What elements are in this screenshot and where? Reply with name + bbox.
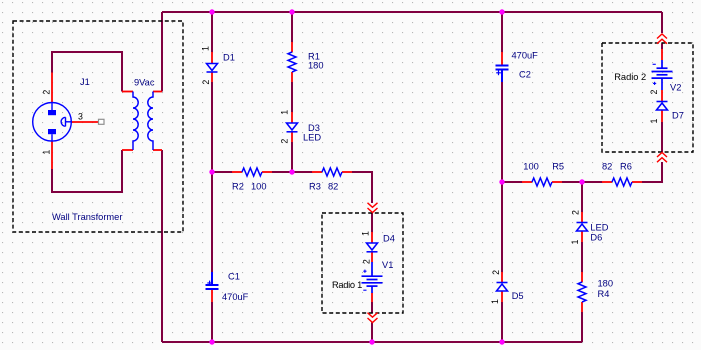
resistor R1 (vertical) — [288, 52, 296, 72]
wall transformer box — [13, 21, 183, 232]
resistor R4 (vertical) — [578, 282, 586, 302]
svg-text:LED: LED — [303, 133, 321, 143]
D7 pin 2 — [649, 89, 659, 94]
wire middle rail left — [212, 171, 232, 173]
svg-text:1: 1 — [360, 231, 370, 236]
R6 stubs — [602, 181, 612, 183]
capacitor C1 — [206, 272, 219, 289]
wire C1 branch — [211, 172, 213, 272]
R4 stubs — [581, 272, 583, 282]
wire radio1 inner bottom — [371, 302, 373, 313]
D6 pin 1 — [570, 240, 580, 245]
svg-text:R5: R5 — [552, 162, 564, 172]
D3 pin 2 — [280, 139, 290, 144]
svg-text:D5: D5 — [512, 291, 524, 301]
D1 pin 2 — [201, 80, 211, 85]
svg-text:2: 2 — [280, 139, 290, 144]
transformer T coils — [133, 92, 153, 151]
radio 1 box — [322, 213, 403, 313]
C1 bottom stub — [211, 290, 213, 302]
radio 2 box — [602, 43, 693, 152]
J1 pin1 stub — [51, 141, 53, 169]
connector J1 — [33, 103, 72, 142]
svg-text:82: 82 — [328, 182, 338, 192]
R2 stubs — [232, 171, 242, 173]
svg-text:D3: D3 — [308, 123, 320, 133]
diode D7 (up) — [657, 102, 668, 111]
node top D1 — [209, 9, 214, 14]
V2 top stub — [661, 49, 663, 60]
svg-text:2: 2 — [649, 89, 659, 94]
D6 stubs — [581, 212, 583, 222]
wire top rail — [162, 11, 662, 13]
svg-text:82: 82 — [602, 162, 612, 172]
transformer stubs — [122, 91, 133, 93]
LED D3 (down) — [287, 123, 298, 132]
V1 polarity marks — [363, 270, 366, 291]
D6 pin 2 — [570, 210, 580, 215]
svg-text:R2: R2 — [232, 182, 244, 192]
svg-text:180: 180 — [308, 61, 324, 71]
resistor R6 — [612, 178, 632, 186]
node mid D3 — [289, 169, 294, 174]
D3 stubs — [291, 112, 293, 123]
D4 pin 1 — [360, 231, 370, 236]
wire left vertical lower (transformer secondary bottom to bottom rail) — [161, 150, 163, 342]
C2 top stub — [501, 52, 503, 66]
wire R1/D3 branch — [291, 12, 293, 42]
svg-text:9Vac: 9Vac — [134, 78, 155, 88]
svg-text:Radio 1: Radio 1 — [332, 280, 362, 290]
J1 pin 1 — [41, 150, 51, 155]
capacitor C2 — [496, 66, 509, 83]
svg-text:LED: LED — [590, 223, 608, 233]
wire radio1 inner top — [371, 213, 373, 233]
svg-text:2: 2 — [362, 259, 372, 264]
svg-text:180: 180 — [598, 279, 614, 289]
wire middle-right rail — [502, 181, 522, 183]
battery V2 — [652, 60, 673, 90]
svg-text:470uF: 470uF — [222, 292, 249, 302]
J1 pin3 stub — [72, 121, 99, 123]
svg-text:3: 3 — [78, 111, 83, 121]
wire J1 pin1 to transformer primary bottom — [52, 150, 122, 192]
node bottom C1 — [209, 339, 214, 344]
svg-text:100: 100 — [251, 182, 267, 192]
svg-text:V2: V2 — [670, 83, 681, 93]
node bottom D5 — [499, 339, 504, 344]
node mid C2/D5 — [499, 179, 504, 184]
svg-text:J1: J1 — [80, 77, 90, 87]
D5 pin 2 — [491, 270, 501, 275]
svg-text:C2: C2 — [519, 70, 531, 80]
LED D6 (up) — [577, 223, 588, 232]
resistor R3 — [322, 168, 342, 176]
D7 bottom stub — [661, 110, 663, 122]
svg-text:D4: D4 — [383, 234, 395, 244]
V2-D7 stub — [661, 90, 663, 101]
svg-text:2: 2 — [570, 210, 580, 215]
svg-text:V1: V1 — [382, 260, 393, 270]
J1 pin3 terminal square — [99, 119, 105, 124]
V2 polarity marks — [653, 64, 657, 85]
node mid D6 — [579, 179, 584, 184]
svg-text:1: 1 — [201, 46, 211, 51]
wire C2 branch top — [501, 12, 503, 52]
svg-text:1: 1 — [41, 150, 51, 155]
diode D5 (up) — [497, 283, 508, 292]
R1 stubs — [291, 42, 293, 52]
node top C2 — [499, 9, 504, 14]
svg-text:2: 2 — [491, 270, 501, 275]
wire bottom rail — [162, 341, 582, 343]
svg-text:2: 2 — [201, 80, 211, 85]
radio1 top chevrons (down) — [368, 203, 378, 208]
node top R1 — [289, 9, 294, 14]
svg-text:1: 1 — [649, 118, 659, 123]
V1 bottom stub — [371, 293, 373, 302]
battery V1 — [362, 262, 383, 293]
diode D1 (down) — [207, 64, 218, 73]
svg-text:100: 100 — [523, 162, 539, 172]
D1 stubs — [211, 52, 213, 64]
radio1 bottom chevrons (down) — [368, 313, 378, 318]
svg-text:D6: D6 — [590, 233, 602, 243]
wire right vertical into radio2 — [661, 12, 663, 33]
wire D5 branch — [501, 182, 503, 272]
C1 plus — [207, 281, 212, 286]
D1 pin 1 — [201, 46, 211, 51]
wire radio2 inner bottom — [661, 122, 663, 152]
radio2 bottom chevrons (up) — [657, 153, 667, 158]
svg-text:R6: R6 — [620, 162, 632, 172]
resistor R5 — [532, 178, 552, 186]
svg-text:D7: D7 — [672, 111, 684, 121]
wire radio1 bottom chevron to rail — [371, 323, 373, 343]
D4 stubs — [371, 232, 373, 243]
R5 stubs — [522, 181, 532, 183]
D4 pin 2 — [362, 259, 372, 264]
D7 pin 1 — [649, 118, 659, 123]
node bottom radio1 — [369, 339, 374, 344]
node mid D1 — [209, 169, 214, 174]
svg-text:D1: D1 — [223, 53, 235, 63]
svg-text:R3: R3 — [309, 182, 321, 192]
wire D1 branch upper — [211, 12, 213, 52]
svg-text:1: 1 — [280, 110, 290, 115]
svg-text:1: 1 — [570, 240, 580, 245]
svg-text:Wall Transformer: Wall Transformer — [52, 212, 122, 222]
radio2 top chevrons (up) — [657, 34, 667, 39]
D5 stubs — [501, 272, 503, 282]
R3 stubs — [312, 171, 322, 173]
diode D4 (down) — [367, 243, 378, 252]
resistor R2 — [242, 168, 262, 176]
wire left vertical upper (transformer secondary top to rail) — [161, 12, 163, 92]
C2 plus — [496, 70, 501, 75]
svg-text:Radio 2: Radio 2 — [614, 72, 646, 82]
svg-text:1: 1 — [490, 299, 500, 304]
svg-text:C1: C1 — [228, 272, 240, 282]
svg-text:2: 2 — [41, 90, 51, 95]
D3 pin 1 — [280, 110, 290, 115]
svg-text:470uF: 470uF — [512, 51, 539, 61]
J1 pin 2 — [41, 90, 51, 95]
svg-text:R4: R4 — [598, 289, 610, 299]
wire J1 pin2 to transformer primary top — [52, 52, 122, 92]
D5 pin 1 — [490, 299, 500, 304]
wire D1 branch lower — [211, 82, 213, 172]
J1 pin2 stub — [51, 73, 53, 103]
wire D6/R4 branch — [581, 182, 583, 212]
